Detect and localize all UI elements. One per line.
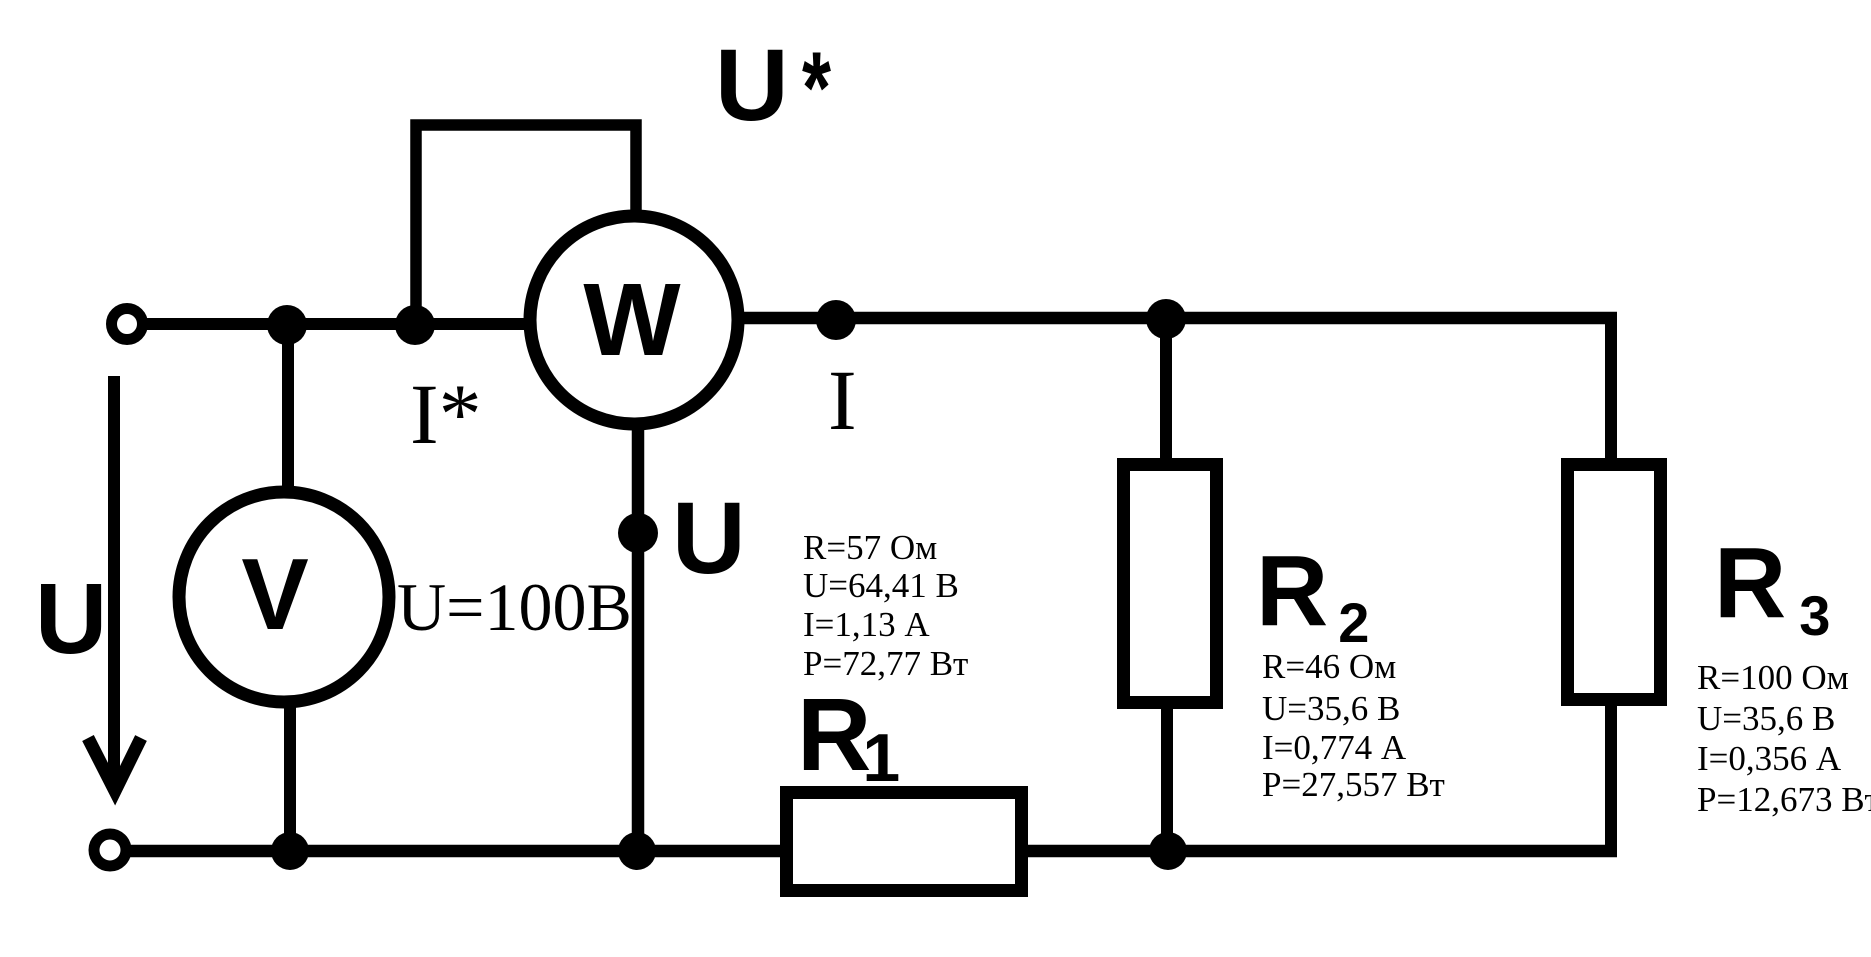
svg-text:U: U [715,28,789,142]
wire U* potential loop [416,125,636,330]
svg-text:U=64,41 В: U=64,41 В [803,566,959,605]
node junction V top [267,305,307,345]
svg-text:I*: I* [410,366,482,462]
resistor R1 box [787,793,1022,891]
terminal bottom-left [94,834,126,866]
svg-text:R=100 Ом: R=100 Ом [1697,658,1849,697]
node junction I* [395,305,435,345]
svg-text:I: I [828,352,857,448]
svg-text:*: * [802,30,831,144]
svg-text:U=100B: U=100B [397,569,632,645]
wire R2 bottom stem [1161,701,1173,851]
wattmeter W circle [530,216,738,424]
svg-text:U=35,6 В: U=35,6 В [1262,689,1400,728]
svg-text:P=12,673 Вт: P=12,673 Вт [1697,780,1871,819]
wire bottom rail right segment [1024,845,1617,858]
wire R2 top stem [1160,318,1172,466]
svg-text:P=27,557 Вт: P=27,557 Вт [1262,765,1445,804]
svg-text:R=46 Ом: R=46 Ом [1262,647,1396,686]
node junction I [816,300,856,340]
wire bottom rail left segment [128,845,784,858]
resistor R3 box [1568,465,1661,700]
wire W bottom stem [632,428,645,852]
voltmeter V circle [179,492,389,702]
node U on W stem [618,513,658,553]
wire V bottom stem [284,700,296,852]
svg-text:V: V [241,539,308,651]
wire top rail right segment [740,312,1617,325]
svg-text:I=0,356 А: I=0,356 А [1697,739,1842,778]
arrow U source line [108,376,120,778]
svg-text:W: W [583,262,681,377]
node junction W stem bottom [618,832,656,870]
node junction R2 top [1146,299,1186,339]
terminal top-left [112,309,143,340]
svg-text:U=35,6 В: U=35,6 В [1697,699,1835,738]
svg-text:R=57 Ом: R=57 Ом [803,528,937,567]
resistor R2 box [1124,465,1217,703]
wire R3 bottom stem [1605,698,1617,857]
svg-text:U: U [672,481,746,595]
wire top rail left segment [143,318,530,330]
svg-text:I=0,774 А: I=0,774 А [1262,728,1407,767]
svg-text:U: U [35,563,107,675]
node junction R2 bottom [1149,832,1187,870]
svg-text:I=1,13 А: I=1,13 А [803,605,930,644]
wire V top stem [282,324,294,495]
arrow U source head [88,738,141,791]
svg-text:P=72,77 Вт: P=72,77 Вт [803,644,968,683]
node junction V bottom [271,832,309,870]
wire R3 top drop [1605,312,1617,466]
